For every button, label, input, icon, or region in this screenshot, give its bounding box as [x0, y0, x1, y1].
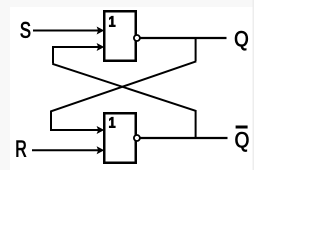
gate U2 label 1: [109, 117, 115, 127]
wire Q-bar output of U2 to Q-bar terminal: [140, 137, 228, 139]
wire corner left-top: vertical from U1 input down: [52, 46, 54, 64]
wire S input to gate U1: [33, 27, 104, 35]
wire feedback into U2 first input: [50, 126, 104, 134]
wire vertical top-right: Q output wire down to diagonal B: [195, 37, 197, 61]
wire diagonal A: U1 input corner to Q-bar feedback vertical: [52, 64, 195, 111]
wire Q output of U1 to Q terminal: [140, 37, 227, 39]
node S label: [21, 22, 31, 38]
node R label: [17, 141, 26, 157]
wire diagonal B: Q output down to U2 input corner: [51, 61, 196, 111]
node Q-bar label: [236, 127, 249, 152]
node Q label: [235, 31, 248, 50]
gate U2 body (NAND, IEC box): [104, 113, 136, 163]
wire feedback into U1 second input: [53, 43, 104, 51]
gate U1 output bubble: [134, 35, 140, 41]
wire R input to gate U2: [32, 146, 104, 154]
gate U2 output bubble: [134, 135, 140, 141]
wire vertical bottom-right: diagonal A down to Q-bar output wire: [195, 110, 197, 139]
gate U1 label 1: [109, 16, 115, 26]
gate U1 body (NAND, IEC box): [104, 11, 136, 61]
wire vertical bottom-left: diagonal B down to U2 input: [50, 111, 52, 132]
